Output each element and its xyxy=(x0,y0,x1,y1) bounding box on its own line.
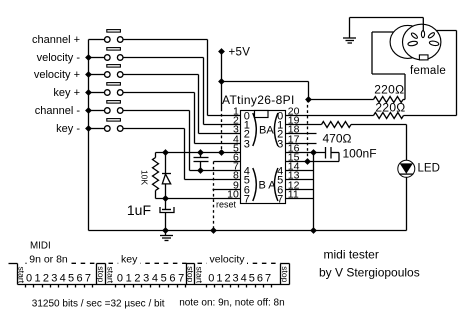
svg-text:4: 4 xyxy=(60,272,66,284)
svg-text:stop: stop xyxy=(186,266,196,282)
svg-text:31250 bits / sec =32 µsec / b: 31250 bits / sec =32 µsec / bit xyxy=(32,299,165,310)
svg-text:stop: stop xyxy=(96,266,106,282)
svg-text:B A: B A xyxy=(259,180,277,192)
svg-text:1uF: 1uF xyxy=(127,202,151,218)
svg-text:6: 6 xyxy=(257,272,263,284)
svg-text:4: 4 xyxy=(241,272,247,284)
svg-text:channel +: channel + xyxy=(32,34,80,46)
svg-text:start: start xyxy=(194,267,204,284)
svg-text:velocity -: velocity - xyxy=(37,52,81,64)
svg-text:0: 0 xyxy=(117,272,123,284)
svg-text:3: 3 xyxy=(51,272,57,284)
svg-text:2: 2 xyxy=(43,272,49,284)
svg-text:0: 0 xyxy=(208,272,214,284)
svg-text:220Ω: 220Ω xyxy=(375,100,405,114)
svg-text:MIDI: MIDI xyxy=(30,241,51,252)
svg-text:7: 7 xyxy=(244,193,250,205)
svg-text:6: 6 xyxy=(169,272,175,284)
svg-text:key +: key + xyxy=(53,87,80,99)
svg-text:LED: LED xyxy=(418,163,440,175)
svg-text:by V Stergiopoulos: by V Stergiopoulos xyxy=(319,266,420,280)
svg-text:470Ω: 470Ω xyxy=(323,131,352,145)
svg-text:stop: stop xyxy=(280,266,290,282)
svg-text:2: 2 xyxy=(224,272,230,284)
svg-text:reset: reset xyxy=(216,200,237,210)
svg-text:4: 4 xyxy=(152,272,158,284)
svg-text:7: 7 xyxy=(85,272,91,284)
svg-text:9n or 8n: 9n or 8n xyxy=(29,253,68,265)
svg-text:3: 3 xyxy=(233,272,239,284)
svg-text:10K: 10K xyxy=(140,170,150,185)
svg-text:start: start xyxy=(17,267,27,284)
svg-text:note on: 9n, note off: 8n: note on: 9n, note off: 8n xyxy=(179,298,284,309)
svg-text:start: start xyxy=(106,267,116,284)
svg-text:channel -: channel - xyxy=(35,105,81,117)
svg-text:7: 7 xyxy=(265,272,271,284)
svg-text:3: 3 xyxy=(244,138,250,150)
svg-text:5: 5 xyxy=(68,272,74,284)
svg-text:7: 7 xyxy=(178,272,184,284)
svg-text:5: 5 xyxy=(249,272,255,284)
svg-text:3: 3 xyxy=(143,272,149,284)
svg-text:1: 1 xyxy=(216,272,222,284)
svg-text:key: key xyxy=(121,253,138,265)
svg-text:2: 2 xyxy=(134,272,140,284)
svg-text:BA: BA xyxy=(259,125,274,137)
svg-text:100nF: 100nF xyxy=(343,147,377,161)
svg-text:5: 5 xyxy=(161,272,167,284)
svg-text:velocity: velocity xyxy=(209,253,245,265)
svg-text:1: 1 xyxy=(126,272,132,284)
svg-text:midi tester: midi tester xyxy=(324,247,379,261)
svg-text:10: 10 xyxy=(227,189,239,201)
svg-text:key -: key - xyxy=(56,123,80,135)
svg-text:220Ω: 220Ω xyxy=(374,83,404,97)
svg-text:+5V: +5V xyxy=(229,47,251,59)
svg-text:female: female xyxy=(410,65,446,77)
svg-text:1: 1 xyxy=(34,272,40,284)
svg-text:6: 6 xyxy=(76,272,82,284)
svg-text:velocity +: velocity + xyxy=(34,69,80,81)
